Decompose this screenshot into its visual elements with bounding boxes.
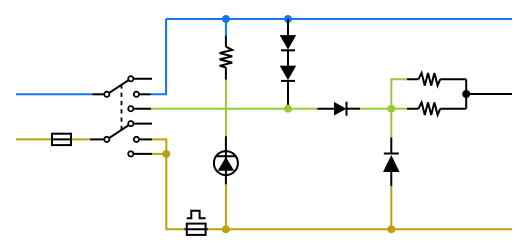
junction: yellow dot at lamp branch bbox=[222, 225, 230, 233]
wire: yellow bottom rail bbox=[208, 228, 512, 230]
wire: yellow below lamp bbox=[225, 184, 227, 229]
switch S1 pole-1 arm bbox=[109, 80, 128, 93]
indicator lamp/LED leads through circle bbox=[225, 136, 227, 184]
diode D4 top lead bbox=[390, 138, 392, 154]
diode D1 cathode bar bbox=[281, 49, 295, 51]
junction: yellow dot at diode branch bbox=[387, 225, 395, 233]
switch S1 pole-1 throw contact (lower, green output) bbox=[128, 106, 133, 111]
wire: black output to right bbox=[466, 93, 512, 95]
wire: green rail to resistor junction bbox=[360, 108, 391, 110]
wire: stub of pole-2 upper throw bbox=[134, 123, 152, 125]
diode D3 triangle bbox=[334, 102, 346, 116]
mechanical link between poles (dashed) bbox=[121, 84, 123, 131]
diode D2 lead to green rail bbox=[287, 81, 289, 109]
flasher unit K1 pulse symbol bbox=[187, 211, 206, 219]
junction: yellow node at switch output bbox=[162, 150, 170, 158]
flasher unit K1 through-line bbox=[185, 228, 208, 230]
switch S1 pole-2 common contact bbox=[104, 137, 109, 142]
diode D2 triangle bbox=[280, 66, 297, 81]
switch S1 pole-2 arm bbox=[109, 125, 128, 137]
wire: green segment through crossing bbox=[225, 80, 227, 137]
wire: stub of pole-1 middle throw bbox=[139, 93, 150, 95]
diode D3 cathode bar bbox=[346, 102, 348, 116]
resistor R1 zigzag bbox=[220, 47, 233, 68]
wire: blue input from left edge bbox=[16, 93, 93, 95]
wire: yellow below diode D4 bbox=[390, 186, 392, 229]
wire: black stub of pole-2 lower throw bbox=[134, 153, 152, 155]
wire: green up-branch to top resistor bbox=[391, 79, 407, 108]
wire: blue supply top rail bbox=[166, 18, 512, 20]
switch S1 pole-1 throw contact (middle) bbox=[134, 92, 139, 97]
wire: yellow from pole-2 middle throw, down to bottom rail bbox=[152, 139, 185, 229]
wire: green down-branch to diode D4 bbox=[390, 109, 392, 138]
wire: black stub of pole-2 middle throw bbox=[139, 138, 152, 140]
wire: yellow from pole-2 lower throw bbox=[152, 153, 166, 155]
diode D1 triangle bbox=[280, 35, 297, 50]
fuse F1 body bbox=[52, 134, 71, 145]
fuse F1 through-line bbox=[52, 138, 71, 140]
resistor R2 zigzag (top) bbox=[418, 73, 440, 86]
switch S1 pole-2 throw contact (lower) bbox=[128, 151, 133, 156]
junction: green dot under diode chain bbox=[284, 105, 292, 113]
wire: black stub of green output contact bbox=[134, 108, 151, 110]
wire: blue stub below top-rail junction bbox=[225, 19, 227, 36]
diode D4 cathode bar bbox=[384, 153, 399, 155]
wire: blue riser from switch throw to top rail bbox=[151, 19, 167, 94]
wire: yellow input from left edge bbox=[16, 138, 52, 140]
indicator LED cathode bar bbox=[217, 155, 235, 157]
wire: stub of pole-1 upper throw bbox=[134, 78, 152, 80]
wire: black joining resistor outputs bbox=[465, 79, 467, 108]
resistor R1 leads bbox=[225, 36, 227, 80]
diode D2 lead bbox=[287, 50, 289, 65]
diode D4 triangle (pointing up) bbox=[383, 155, 400, 172]
junction: black output node bbox=[462, 90, 470, 98]
wire: yellow between fuse and switch bbox=[71, 138, 90, 140]
junction: green dot at resistor network bbox=[387, 105, 395, 113]
diode D3 left lead bbox=[317, 108, 334, 110]
indicator LED triangle bbox=[218, 157, 235, 171]
wire: black stub into switch pole-2 common bbox=[90, 138, 104, 140]
switch S1 pole-1 common contact bbox=[104, 92, 109, 97]
junction: blue dot at diode chain bbox=[284, 15, 292, 23]
wire: green rail from switch to series diode bbox=[151, 108, 317, 110]
diode D4 bottom lead bbox=[390, 172, 392, 186]
indicator LED circle bbox=[214, 151, 238, 175]
resistor R2 leads bbox=[407, 78, 466, 80]
switch S1 pole-2 throw contact (middle) bbox=[134, 137, 139, 142]
switch S1 pole-1 throw contact (upper) bbox=[128, 76, 133, 81]
diode D1 lead from top rail bbox=[287, 19, 289, 35]
junction: blue dot at resistor branch bbox=[222, 15, 230, 23]
flasher unit K1 body bbox=[187, 224, 206, 235]
diode D3 right lead bbox=[347, 108, 361, 110]
resistor R3 leads bbox=[407, 108, 466, 110]
diode D2 cathode bar bbox=[281, 80, 295, 82]
resistor R3 zigzag (bottom) bbox=[418, 102, 440, 115]
wire: black stub into switch pole-1 common bbox=[93, 93, 104, 95]
wire: green stub to bottom resistor bbox=[391, 108, 407, 110]
switch S1 pole-2 throw contact (upper) bbox=[128, 121, 133, 126]
